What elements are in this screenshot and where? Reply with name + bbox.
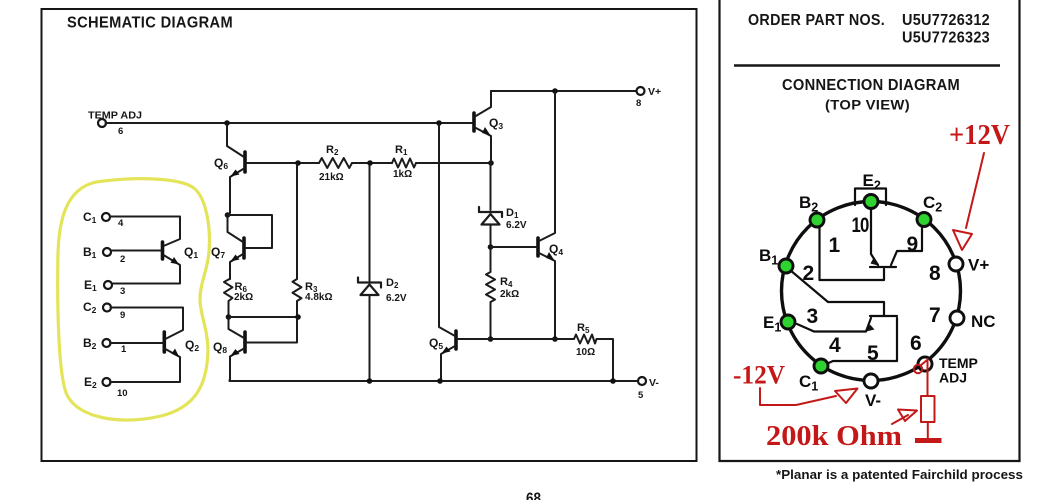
svg-text:E2: E2 xyxy=(84,375,97,390)
resistor R1 1k xyxy=(392,159,416,168)
svg-text:6.2V: 6.2V xyxy=(506,220,527,231)
svg-text:Q7: Q7 xyxy=(211,245,225,260)
pin V- (5) xyxy=(638,377,646,385)
svg-text:10: 10 xyxy=(117,388,128,399)
wire top rail to V+ xyxy=(491,90,637,92)
svg-text:V+: V+ xyxy=(648,86,661,98)
node junction Q4 emitter on R5 line xyxy=(552,336,558,342)
svg-text:1kΩ: 1kΩ xyxy=(393,169,412,180)
svg-text:6.2V: 6.2V xyxy=(386,293,407,304)
internal transistor T2 (lower) xyxy=(870,315,897,317)
pin 6 TEMP ADJ xyxy=(918,357,932,371)
node junction D2 bottom rail xyxy=(367,378,373,384)
svg-text:Q1: Q1 xyxy=(184,245,198,260)
svg-text:4: 4 xyxy=(829,334,841,357)
left panel border frame xyxy=(42,9,697,461)
svg-text:CONNECTION DIAGRAM: CONNECTION DIAGRAM xyxy=(782,77,960,94)
svg-text:U5U7726312: U5U7726312 xyxy=(902,12,990,29)
can tab at E2 xyxy=(855,189,886,206)
red ring on TEMP ADJ pin xyxy=(914,365,922,373)
node junction R1 right / Q3 emitter xyxy=(488,160,494,166)
svg-text:10: 10 xyxy=(852,214,869,237)
svg-text:C2: C2 xyxy=(923,193,942,215)
node junction R4 bottom / Q5 base xyxy=(488,336,494,342)
svg-text:8: 8 xyxy=(929,262,941,285)
resistor R2 21k xyxy=(246,162,319,164)
svg-text:E2: E2 xyxy=(863,171,881,193)
svg-text:Q3: Q3 xyxy=(489,116,503,131)
svg-text:Q6: Q6 xyxy=(214,156,228,171)
node junction Q6 emitter / Q7 collector xyxy=(225,212,231,218)
pin 7 NC xyxy=(950,311,964,325)
svg-text:4.8kΩ: 4.8kΩ xyxy=(305,292,332,303)
svg-text:*Planar is a patented Fairchil: *Planar is a patented Fairchild process xyxy=(776,467,1023,482)
node junction D1 / R4 / Q4 base xyxy=(488,244,494,250)
svg-text:V+: V+ xyxy=(968,256,989,275)
svg-text:V-: V- xyxy=(649,377,659,389)
svg-text:D2: D2 xyxy=(386,277,399,290)
pin V+ (8) xyxy=(637,87,645,95)
svg-text:2: 2 xyxy=(803,262,814,285)
red resistor 200k xyxy=(921,396,935,422)
svg-text:SCHEMATIC DIAGRAM: SCHEMATIC DIAGRAM xyxy=(67,15,233,32)
svg-text:6: 6 xyxy=(118,126,123,137)
pin 3 E1 xyxy=(781,315,795,329)
pin 10 E2 xyxy=(864,195,878,209)
svg-text:B2: B2 xyxy=(799,193,818,215)
svg-text:ADJ: ADJ xyxy=(939,370,967,386)
pin 2 B1 xyxy=(779,259,793,273)
node junction on TEMP ADJ line at x=439 xyxy=(436,120,442,126)
red wire from TEMP ADJ to 200k resistor xyxy=(921,359,928,396)
svg-text:4: 4 xyxy=(118,218,124,229)
svg-text:3: 3 xyxy=(807,305,818,328)
transistor Q7 (diode connected) xyxy=(242,238,246,258)
red arrow to 200k resistor xyxy=(892,415,908,424)
svg-text:V-: V- xyxy=(865,391,881,410)
wire bottom rail to V- xyxy=(230,380,639,381)
svg-text:2kΩ: 2kΩ xyxy=(500,289,519,300)
transistor Q5 xyxy=(454,331,458,349)
svg-text:C1: C1 xyxy=(799,372,818,394)
node junction Q5 emitter bottom rail xyxy=(437,378,443,384)
resistor R3 4.8k xyxy=(293,165,302,315)
svg-text:+12V: +12V xyxy=(949,120,1010,151)
svg-text:R4: R4 xyxy=(500,276,513,289)
pin 4 C1 xyxy=(814,359,828,373)
diode D2 zener 6.2V xyxy=(369,165,371,281)
svg-text:Q5: Q5 xyxy=(429,336,443,351)
svg-text:2kΩ: 2kΩ xyxy=(234,292,253,303)
svg-text:10Ω: 10Ω xyxy=(576,347,595,358)
svg-text:NC: NC xyxy=(971,312,996,331)
resistor R5 10 ohm xyxy=(491,335,614,381)
svg-text:U5U7726323: U5U7726323 xyxy=(902,30,990,47)
svg-text:1: 1 xyxy=(829,234,841,257)
svg-text:9: 9 xyxy=(907,233,918,256)
resistor R4 2k xyxy=(486,247,495,338)
svg-text:21kΩ: 21kΩ xyxy=(319,172,344,183)
resistor R6 2k xyxy=(224,279,233,316)
svg-text:Q2: Q2 xyxy=(185,338,199,353)
svg-text:8: 8 xyxy=(636,98,641,109)
svg-text:E1: E1 xyxy=(763,313,781,335)
wire R6 bottom to R3 bottom xyxy=(229,316,299,318)
svg-text:1: 1 xyxy=(121,344,127,355)
svg-text:R5: R5 xyxy=(577,322,590,335)
svg-text:TEMP ADJ: TEMP ADJ xyxy=(88,111,142,122)
svg-text:Q4: Q4 xyxy=(549,242,563,257)
svg-text:ORDER PART NOS.: ORDER PART NOS. xyxy=(748,12,885,29)
pin TEMP ADJ terminal (pin 6) xyxy=(98,119,106,127)
diode D1 zener 6.2V xyxy=(490,163,492,210)
node junction R5 bottom rail xyxy=(610,378,616,384)
pin 8 V+ xyxy=(949,257,963,271)
right panel border frame xyxy=(720,0,1020,461)
red arrow to V+ xyxy=(966,153,984,228)
svg-text:9: 9 xyxy=(120,310,125,321)
transistor Q8 xyxy=(243,332,247,352)
svg-text:B1: B1 xyxy=(83,245,97,260)
svg-text:B2: B2 xyxy=(83,336,97,351)
node junction R2 left / R3 top xyxy=(295,160,301,166)
transistor Q1 xyxy=(161,242,165,259)
node junction R2 right / D2 top xyxy=(367,160,373,166)
node junction R3 bottom xyxy=(295,314,301,320)
svg-text:B1: B1 xyxy=(759,246,778,268)
red arrow to V- xyxy=(760,388,836,405)
node junction Q4 collector on top rail xyxy=(552,88,558,94)
svg-text:2: 2 xyxy=(120,254,125,265)
node junction on TEMP ADJ line at x=227 xyxy=(224,120,230,126)
wire TEMP ADJ line to Q3 base xyxy=(106,122,474,124)
separator line xyxy=(734,64,1000,66)
transistor Q2 xyxy=(163,332,167,352)
svg-text:C2: C2 xyxy=(83,300,97,315)
pin 1 B2 xyxy=(810,213,824,227)
svg-text:D1: D1 xyxy=(506,207,519,220)
yellow highlight loop around pins C1,B1,E1,C2,B2,E2 and Q1,Q2 xyxy=(58,179,210,420)
svg-text:R1: R1 xyxy=(395,144,408,157)
svg-text:-12V: -12V xyxy=(733,361,785,390)
svg-text:Q8: Q8 xyxy=(213,340,227,355)
svg-text:6: 6 xyxy=(910,332,921,355)
svg-text:5: 5 xyxy=(638,390,644,401)
svg-text:R2: R2 xyxy=(326,144,339,157)
internal transistor T1 (upper) xyxy=(870,266,896,268)
node junction R6 bottom xyxy=(226,314,232,320)
transistor Q6 xyxy=(243,152,247,172)
svg-text:E1: E1 xyxy=(84,278,97,293)
svg-text:C1: C1 xyxy=(83,210,97,225)
svg-text:3: 3 xyxy=(120,286,125,297)
svg-text:68: 68 xyxy=(526,491,541,500)
pin 9 C2 xyxy=(917,213,931,227)
wire Q7 base loop xyxy=(228,215,273,248)
svg-text:200k Ohm: 200k Ohm xyxy=(766,420,902,452)
red ground bar xyxy=(915,438,942,443)
transistor Q4 xyxy=(536,238,540,256)
svg-text:(TOP VIEW): (TOP VIEW) xyxy=(825,98,910,113)
transistor Q3 xyxy=(472,113,476,131)
pin 5 V- xyxy=(864,374,878,388)
svg-text:7: 7 xyxy=(929,304,940,327)
can package circle (TO-5 top view) xyxy=(782,202,961,381)
svg-text:5: 5 xyxy=(867,342,879,365)
